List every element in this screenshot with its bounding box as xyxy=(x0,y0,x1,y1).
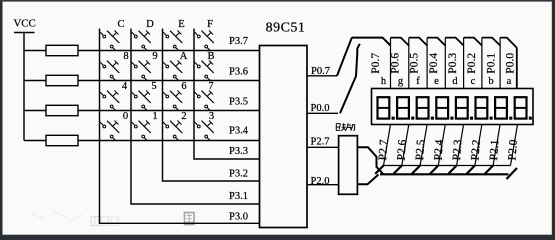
svg-text:P2.0: P2.0 xyxy=(311,176,330,187)
svg-text:3: 3 xyxy=(209,111,214,122)
svg-text:6: 6 xyxy=(181,81,186,92)
svg-text:b: b xyxy=(488,76,493,87)
svg-text:1: 1 xyxy=(152,111,157,122)
svg-text:D: D xyxy=(146,19,154,30)
svg-text:P0.0: P0.0 xyxy=(505,53,517,74)
svg-text:P0.3: P0.3 xyxy=(447,53,459,74)
svg-text:5: 5 xyxy=(151,81,156,92)
svg-text:d: d xyxy=(452,76,458,87)
svg-text:P2.6: P2.6 xyxy=(395,139,408,161)
svg-text:P2.0: P2.0 xyxy=(506,139,519,161)
svg-text:89C51: 89C51 xyxy=(266,21,306,36)
svg-text:P2.3: P2.3 xyxy=(451,139,464,161)
svg-text:P0.6: P0.6 xyxy=(389,53,401,74)
svg-text:f: f xyxy=(416,76,420,87)
svg-text:a: a xyxy=(507,76,512,87)
svg-text:P3.5: P3.5 xyxy=(229,97,248,108)
svg-text:P3.6: P3.6 xyxy=(229,67,248,78)
svg-text:P0.1: P0.1 xyxy=(485,53,497,74)
svg-text:2: 2 xyxy=(181,111,186,122)
svg-text:P2.7: P2.7 xyxy=(377,139,390,161)
svg-text:c: c xyxy=(471,76,476,87)
svg-text:e: e xyxy=(434,76,439,87)
svg-text:P3.4: P3.4 xyxy=(229,126,249,137)
svg-text:0: 0 xyxy=(123,111,128,122)
svg-text:P3.2: P3.2 xyxy=(229,169,248,180)
svg-text:P0.2: P0.2 xyxy=(466,53,478,74)
svg-text:8: 8 xyxy=(123,51,128,62)
svg-text:h: h xyxy=(381,76,387,87)
svg-text:P2.2: P2.2 xyxy=(469,139,482,161)
svg-text:B: B xyxy=(207,51,214,62)
svg-text:P3.1: P3.1 xyxy=(229,191,248,202)
svg-text:C: C xyxy=(117,19,124,30)
svg-text:P0.7: P0.7 xyxy=(370,53,382,74)
svg-text:P2.1: P2.1 xyxy=(488,139,501,161)
svg-text:7: 7 xyxy=(208,81,213,92)
svg-text:P3.0: P3.0 xyxy=(229,212,248,223)
svg-text:P0.7: P0.7 xyxy=(311,66,330,77)
svg-text:g: g xyxy=(398,76,404,87)
svg-text:P2.7: P2.7 xyxy=(311,136,330,147)
svg-text:VCC: VCC xyxy=(14,18,36,30)
svg-text:4: 4 xyxy=(122,81,128,92)
svg-text:9: 9 xyxy=(152,51,157,62)
svg-text:P0.0: P0.0 xyxy=(311,103,330,114)
svg-text:P2.5: P2.5 xyxy=(414,139,427,161)
svg-text:A: A xyxy=(180,51,188,62)
svg-text:F: F xyxy=(207,19,213,30)
svg-text:P0.5: P0.5 xyxy=(409,53,421,74)
svg-text:P3.7: P3.7 xyxy=(229,36,248,47)
svg-text:P2.4: P2.4 xyxy=(432,139,445,161)
svg-text:E: E xyxy=(178,19,184,30)
svg-text:P0.4: P0.4 xyxy=(428,53,440,74)
svg-text:P3.3: P3.3 xyxy=(229,146,248,157)
